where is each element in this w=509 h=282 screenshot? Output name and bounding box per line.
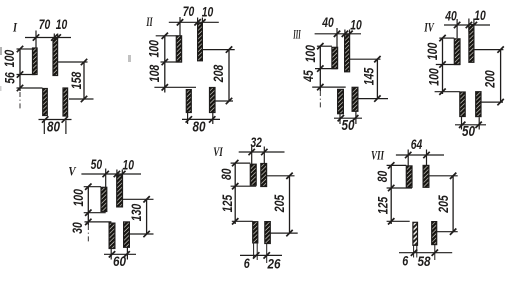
svg-text:70: 70 <box>183 4 195 19</box>
panel V top extension line <box>105 169 107 188</box>
panel I left dimension line <box>19 49 21 91</box>
svg-text:158: 158 <box>69 71 84 89</box>
svg-text:145: 145 <box>362 67 377 85</box>
panel III left dimension line <box>319 46 321 91</box>
panel VII top extension line <box>407 150 409 166</box>
panel VII left dimension line <box>390 165 392 224</box>
panel III centerline <box>319 91 321 108</box>
panel I lower-left wall bar <box>43 89 48 116</box>
svg-text:100: 100 <box>303 45 318 63</box>
svg-text:208: 208 <box>211 64 226 83</box>
panel I left extension lines <box>17 48 33 50</box>
panel I right dimension line 158 <box>58 61 88 63</box>
svg-text:40: 40 <box>321 15 334 30</box>
panel VI left extension lines <box>231 162 251 164</box>
panel II right dimension line 208 <box>202 49 234 51</box>
svg-text:10: 10 <box>474 8 486 23</box>
svg-text:56: 56 <box>3 72 18 84</box>
panel II top dimension line <box>169 21 219 23</box>
panel IV upper-right wall bar <box>469 25 474 63</box>
panel I top extension line <box>35 31 37 48</box>
panel III top extension line <box>336 28 338 47</box>
panel IV right dimension line 200 <box>474 49 504 51</box>
panel I top dimension line <box>25 37 71 39</box>
panel IV lower-left wall bar <box>460 92 465 117</box>
svg-text:VII: VII <box>371 148 385 162</box>
panel III lower-right wall bar <box>352 87 358 111</box>
panel V centerline <box>87 225 89 242</box>
panel VII lower-right wall bar <box>432 222 437 245</box>
panel IV upper-left wall bar <box>454 39 460 65</box>
panel III bottom dimension line 50 <box>334 117 362 119</box>
panel VII left extension lines <box>387 164 407 166</box>
panel VII lower-left wall bar <box>413 222 418 245</box>
svg-text:205: 205 <box>436 195 451 214</box>
panel V lower-right wall bar <box>124 222 130 247</box>
svg-text:10: 10 <box>123 158 135 173</box>
svg-text:205: 205 <box>272 194 287 213</box>
svg-text:II: II <box>146 15 154 29</box>
panel VII bottom dimension line 6 and 58 <box>399 252 452 254</box>
svg-text:VI: VI <box>213 145 223 159</box>
svg-text:60: 60 <box>113 253 126 269</box>
svg-text:70: 70 <box>39 17 51 32</box>
svg-text:50: 50 <box>342 117 356 134</box>
panel V left extension lines <box>84 186 101 188</box>
panel II lower-right wall bar <box>210 88 216 113</box>
panel II upper-right wall bar <box>198 24 203 61</box>
svg-text:40: 40 <box>444 9 457 24</box>
panel IV top extension line <box>456 19 458 38</box>
panel VI upper-left wall bar <box>250 164 256 185</box>
panel IV top dimension line <box>444 24 490 26</box>
panel II left dimension line <box>164 36 166 93</box>
panel I bottom dimension line 80 <box>39 119 72 121</box>
panel III upper-right wall bar <box>345 35 350 72</box>
svg-text:45: 45 <box>301 70 316 83</box>
panel III top dimension line <box>315 33 361 35</box>
svg-text:80: 80 <box>219 168 234 180</box>
panel VI upper-right wall bar <box>261 164 267 187</box>
svg-text:6: 6 <box>402 254 408 269</box>
panel VI lower-left wall bar <box>253 222 258 243</box>
svg-text:6: 6 <box>244 256 250 271</box>
panel III right dimension line 145 <box>350 58 381 60</box>
svg-text:III: III <box>293 27 301 41</box>
panel VI left dimension line <box>234 163 236 224</box>
svg-text:26: 26 <box>267 256 281 272</box>
panel IV lower-right wall bar <box>476 92 481 117</box>
svg-text:80: 80 <box>47 118 61 135</box>
panel II top extension line <box>179 17 181 36</box>
panel V upper-left wall bar <box>101 187 107 211</box>
svg-text:100: 100 <box>147 40 162 58</box>
svg-text:125: 125 <box>376 196 391 214</box>
panel II left extension lines <box>156 35 177 37</box>
svg-text:32: 32 <box>250 135 262 150</box>
panel V bottom dimension line 60 <box>104 253 136 255</box>
panel VII right dimension line 205 <box>429 175 458 177</box>
panel II lower-left wall bar <box>186 90 191 113</box>
panel III left extension lines <box>317 45 332 47</box>
panel I lower-right wall bar <box>63 88 68 116</box>
panel V left dimension line <box>87 187 89 225</box>
svg-text:125: 125 <box>220 194 235 212</box>
svg-text:80: 80 <box>375 170 390 182</box>
svg-text:200: 200 <box>482 70 497 89</box>
panel V right dimension line 130 <box>123 198 154 200</box>
panel I upper-left wall bar <box>33 48 38 75</box>
svg-text:64: 64 <box>411 137 423 152</box>
svg-text:IV: IV <box>423 20 435 34</box>
panel VII upper-right wall bar <box>423 165 429 187</box>
svg-text:108: 108 <box>147 64 162 82</box>
panel V upper-right wall bar <box>117 175 123 207</box>
panel I centerline <box>19 92 21 109</box>
svg-text:100: 100 <box>71 189 86 207</box>
svg-text:80: 80 <box>193 118 207 135</box>
panel VII upper-left wall bar <box>406 166 412 187</box>
panel IV left extension lines <box>439 37 454 39</box>
panel IV bottom dimension line 50 <box>455 124 486 126</box>
panel VI top dimension line <box>239 151 285 153</box>
panel I upper-right wall bar <box>53 39 58 76</box>
svg-text:50: 50 <box>91 157 103 172</box>
panel V top dimension line <box>81 173 141 175</box>
svg-text:100: 100 <box>425 42 440 60</box>
panel II upper-left wall bar <box>176 36 181 62</box>
svg-text:50: 50 <box>462 123 476 140</box>
svg-text:10: 10 <box>202 5 214 20</box>
svg-text:58: 58 <box>418 253 431 269</box>
panel VI bottom dimension line 6 and 26 <box>240 254 282 256</box>
svg-text:130: 130 <box>129 203 144 221</box>
svg-text:100: 100 <box>2 49 17 67</box>
panel VI lower-right wall bar <box>265 222 271 244</box>
svg-text:10: 10 <box>56 17 68 32</box>
panel III upper-left wall bar <box>332 47 338 68</box>
panel IV left dimension line <box>442 38 444 94</box>
panel V lower-left wall bar <box>109 223 115 248</box>
panel II bottom dimension line 80 <box>182 118 220 120</box>
scan artifact speck on left edge <box>0 47 2 55</box>
svg-text:100: 100 <box>426 68 441 86</box>
svg-text:30: 30 <box>70 222 85 234</box>
panel III lower-left wall bar <box>338 89 344 113</box>
panel VII top dimension line <box>396 154 444 156</box>
panel VI right dimension line 205 <box>267 175 295 177</box>
svg-text:10: 10 <box>350 17 362 32</box>
panel VI top extension line <box>251 147 253 165</box>
